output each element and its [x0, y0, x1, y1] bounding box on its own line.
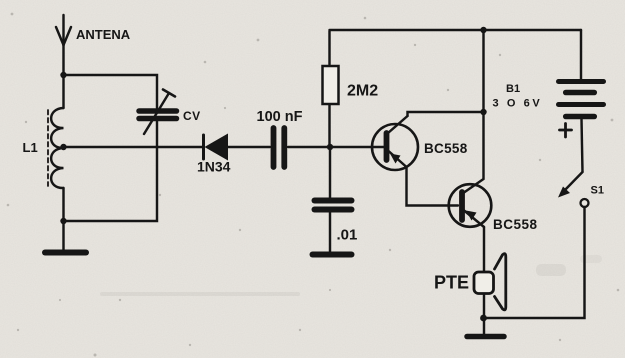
svg-text:2M2: 2M2 [347, 83, 378, 100]
svg-text:L1: L1 [23, 140, 38, 155]
wire CV bottom to L1 bottom [64, 122, 158, 222]
svg-text:3 O 6V: 3 O 6V [493, 98, 543, 110]
wire Q1 emitter to Q2 base [407, 167, 459, 206]
node L1 tap [60, 144, 66, 150]
wire switch to ground node [484, 207, 585, 318]
svg-text:S1: S1 [591, 185, 604, 197]
svg-text:CV: CV [183, 109, 201, 123]
switch S1 [558, 119, 589, 207]
inductor L1 [51, 75, 63, 221]
wire PTE to ground node [483, 295, 485, 335]
svg-text:BC558: BC558 [424, 141, 468, 156]
svg-text:.01: .01 [337, 227, 358, 244]
capacitor .01 [315, 147, 352, 252]
L1 core dashed line [47, 110, 49, 186]
svg-text:ANTENA: ANTENA [76, 27, 131, 42]
ground under .01 [313, 252, 352, 258]
svg-text:100 nF: 100 nF [257, 109, 303, 125]
wire Q2 emitter to PTE [483, 227, 485, 271]
node antenna junction [60, 72, 66, 78]
label battery plus [560, 124, 572, 138]
ground under L1 [45, 221, 86, 253]
wire Q1 collector to rail [408, 112, 484, 116]
wire 100nF to Q1 base [288, 146, 385, 148]
transistor Q1 BC558 [372, 116, 418, 170]
svg-text:B1: B1 [506, 83, 520, 95]
svg-text:BC558: BC558 [493, 217, 538, 232]
transistor Q2 BC558 [449, 184, 492, 227]
node collector rail junction [480, 109, 486, 115]
resistor 2M2 [323, 31, 339, 147]
diode 1N34 [204, 134, 229, 161]
capacitor 100nF [274, 128, 285, 167]
svg-text:1N34: 1N34 [197, 159, 231, 175]
node base junction [327, 144, 333, 150]
speaker PTE [474, 254, 506, 310]
battery B1 [559, 30, 604, 117]
wire L1 tap to diode [64, 146, 204, 148]
svg-text:PTE: PTE [434, 273, 469, 293]
capacitor CV [139, 90, 177, 135]
wire rail down to Q2 collector [464, 30, 484, 193]
wire top rail [330, 29, 582, 31]
antenna [56, 15, 71, 75]
node speaker ground junction [480, 315, 487, 322]
node L1 bottom [60, 218, 66, 224]
node top rail junction [480, 27, 486, 33]
ground under PTE [467, 334, 504, 340]
wire diode to 100nF [228, 146, 270, 148]
wire antenna to CV top [64, 75, 158, 108]
